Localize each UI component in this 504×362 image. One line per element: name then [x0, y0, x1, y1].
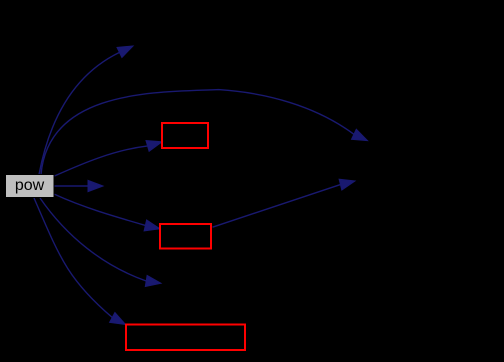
node pow (current function, gray): [6, 175, 55, 198]
node box1 (red, truncated callee): [162, 123, 208, 148]
edge pow->node-mid (horizontal): [55, 180, 104, 191]
edge pow->box1: [55, 141, 163, 176]
node box2 (red, truncated callee): [160, 224, 211, 249]
edge pow->node-right (upper curve): [41, 90, 368, 175]
edge pow->node-lowermid: [40, 198, 161, 287]
node box3 (red, truncated callee): [126, 325, 245, 351]
edge box2->node-right: [213, 179, 356, 227]
edge pow->node-top: [39, 46, 133, 175]
edge pow->box3: [34, 198, 126, 325]
edge pow->box2: [55, 194, 161, 231]
svg-text:pow: pow: [15, 177, 45, 194]
